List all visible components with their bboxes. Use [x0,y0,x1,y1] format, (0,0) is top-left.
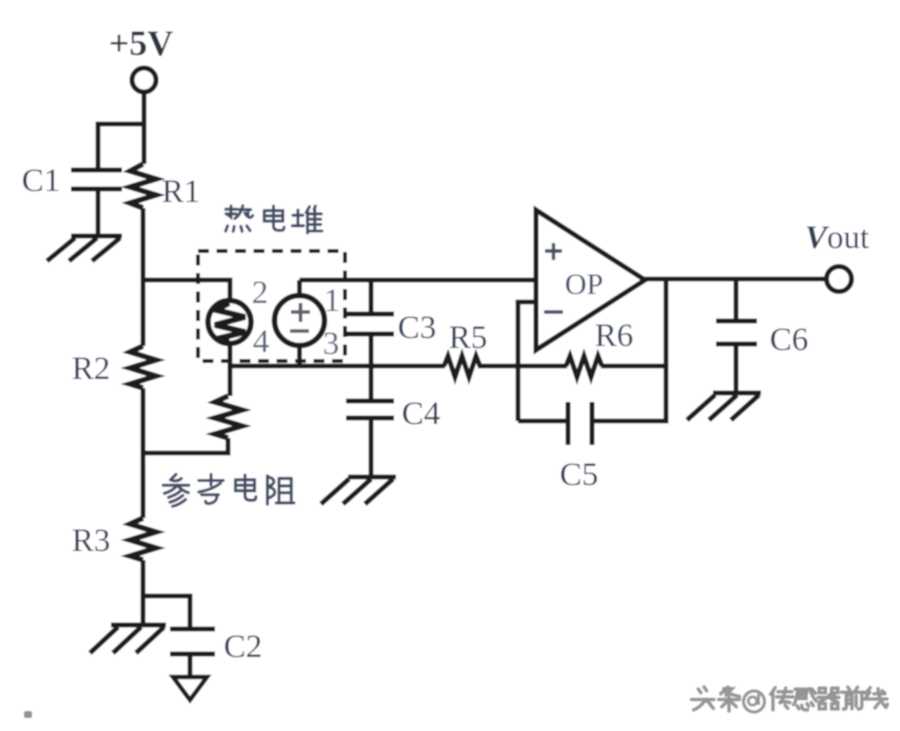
resistor R6 [566,356,602,377]
terminal +5V [132,68,156,92]
capacitor C4 [346,401,394,418]
svg-text:2: 2 [252,275,269,311]
wire ref resistor to rail [143,438,228,453]
svg-text:1: 1 [324,283,341,319]
svg-text:C6: C6 [770,322,809,358]
wire C3 branch top [369,280,374,313]
wire C4 to ground [369,420,374,477]
svg-text:C4: C4 [402,396,441,432]
svg-text:3: 3 [323,326,340,362]
wire source bottom [297,346,302,366]
wire inverting input stub [518,302,536,421]
wire C6 branch [734,279,739,320]
resistor R5 [444,356,480,377]
ground (C6) [687,393,761,420]
svg-text:C5: C5 [560,457,599,493]
wire R5 rail [230,364,666,369]
wire source top + rail to op-amp [300,280,537,295]
wire C1 to ground [96,191,101,236]
thermistor (thermopile element) [208,301,251,344]
wire C2 branch [143,596,190,629]
watermark 头条 @传感器前线 [692,687,888,712]
svg-text:R2: R2 [72,351,111,387]
svg-text:R6: R6 [595,318,634,354]
capacitor C1 [71,170,122,189]
ground (left big) [90,625,166,653]
reference resistor [215,396,242,438]
thermopile dashed box [198,251,345,361]
svg-text:out: out [827,220,869,256]
ground (C4) [321,477,396,504]
svg-text:4: 4 [253,324,270,360]
wire thermistor bottom [228,344,233,396]
wire rail R3 to ground [141,560,146,625]
svg-text:C2: C2 [224,629,263,665]
svg-text:OP: OP [565,268,603,301]
wire output [645,277,826,282]
ground (C1) [47,236,122,261]
wire C6 to ground [734,346,739,393]
wire C2 to arrow ground [188,656,193,677]
svg-text:R1: R1 [162,174,201,210]
capacitor C3 [347,314,394,334]
wire rail R2-R3 [141,388,146,518]
svg-text:+5V: +5V [109,23,174,63]
voltage source (thermopile emf) [275,296,325,346]
wire C3 to rail to C4 [369,336,374,400]
svg-text:R3: R3 [72,523,111,559]
svg-text:C1: C1 [22,163,61,199]
wire supply down [142,93,147,164]
svg-text:C3: C3 [398,310,437,346]
svg-text:R5: R5 [449,320,488,356]
resistor R2 [130,346,156,388]
op-amp OP [536,210,645,350]
capacitor C5 [568,402,592,445]
label 热电堆 [226,206,322,233]
label 参考电阻 [163,474,294,506]
capacitor C6 [716,321,757,344]
wire main rail R1-R2 [141,208,146,346]
wire top rail left [143,280,230,300]
ground (arrow) [173,677,207,700]
resistor R3 [130,518,156,560]
resistor R1 [130,164,156,208]
wire C5 loop [518,279,666,421]
terminal Vout [827,267,852,292]
capacitor C2 [170,629,215,654]
small smudge bottom-left [24,711,32,718]
wire C1 branch [98,124,144,168]
